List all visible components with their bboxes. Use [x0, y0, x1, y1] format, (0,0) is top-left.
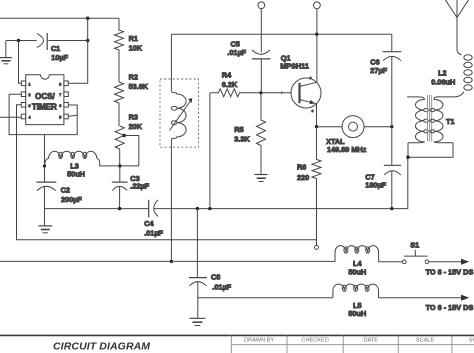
ground G3 — [255, 174, 268, 176]
ground G1 — [5, 41, 7, 58]
inductor L5 — [333, 284, 379, 298]
junction dot XTAL right on C6C7 line — [390, 125, 393, 128]
transformer T1 left winding — [407, 97, 424, 143]
capacitor C4 — [148, 200, 150, 218]
resistor R6 — [312, 127, 321, 246]
transformer T1 core — [428, 95, 432, 142]
wire L1 feed vertical — [170, 34, 172, 90]
wire pin1 — [19, 41, 22, 84]
svg-text:10µF: 10µF — [51, 53, 68, 62]
junction dot L3 left — [43, 164, 46, 167]
pin 2 stub — [21, 92, 25, 97]
pin 1 stub — [21, 81, 25, 86]
terminal circle T1a — [258, 2, 265, 9]
svg-text:R3: R3 — [129, 113, 138, 122]
inductor L4 — [335, 246, 379, 262]
ground G2 — [38, 225, 52, 227]
svg-text:TO 6 - 15V DS: TO 6 - 15V DS — [426, 303, 474, 312]
svg-text:CHECKED: CHECKED — [301, 337, 328, 343]
inductor L1 coil — [171, 90, 186, 140]
svg-text:1: 1 — [29, 82, 31, 86]
svg-text:SHEET: SHEET — [469, 337, 474, 343]
junction dot C3 on mid rail — [118, 207, 121, 210]
svg-text:R1: R1 — [129, 34, 138, 43]
inductor L1 variable dashed box — [160, 79, 199, 147]
wire L5 row — [198, 297, 333, 299]
svg-text:2: 2 — [29, 93, 31, 97]
resistor R3 — [115, 126, 124, 166]
ground G4 — [189, 317, 205, 319]
svg-text:.01µF: .01µF — [144, 228, 163, 237]
wire bottom rail y261.4 — [0, 260, 335, 262]
svg-text:4: 4 — [29, 116, 31, 120]
svg-text:C1: C1 — [51, 44, 60, 53]
wire L1 bottom to bottom rail — [170, 140, 172, 261]
svg-text:8: 8 — [59, 82, 61, 86]
wire pin8 vertical — [68, 18, 88, 83]
svg-text:R4: R4 — [222, 71, 232, 80]
svg-text:10K: 10K — [129, 44, 143, 53]
svg-text:DRAWN BY: DRAWN BY — [244, 337, 274, 343]
svg-text:e: e — [312, 109, 314, 113]
svg-text:3.3K: 3.3K — [234, 134, 250, 143]
switch S1 — [379, 261, 403, 263]
junction dot T1 box corner — [406, 156, 409, 159]
wire R3 tap loop — [120, 136, 139, 166]
crystal XTAL — [317, 126, 343, 128]
svg-text:6: 6 — [59, 104, 61, 108]
capacitor C2 — [36, 181, 56, 183]
wire main mid rail y208.6 left of C4 — [45, 208, 149, 210]
wire pin2 to pins 5/6 — [9, 94, 77, 134]
wire oscillator top rail — [171, 33, 391, 35]
svg-text:S1: S1 — [410, 241, 419, 250]
pin 5 stub — [64, 114, 68, 119]
inductor L1 arrow — [170, 102, 191, 131]
wire main mid rail y208.6 right of C4 — [154, 157, 408, 208]
svg-text:50uH: 50uH — [348, 268, 366, 277]
svg-text:.22µF: .22µF — [130, 182, 149, 191]
capacitor C5 — [252, 50, 270, 54]
capacitor C8 — [196, 209, 198, 278]
pin 8 stub — [64, 81, 68, 86]
wire C1 right to IC pin8 drop — [48, 40, 87, 42]
resistor R5 — [257, 93, 266, 175]
junction dot R3 bottom node — [118, 164, 121, 167]
svg-text:R6: R6 — [297, 163, 306, 172]
junction dot R4/R5/C5/base node — [259, 91, 262, 94]
pin 4 stub — [21, 114, 25, 119]
svg-text:TIMER: TIMER — [32, 102, 57, 111]
svg-text:5: 5 — [59, 116, 61, 120]
junction dot C1 right node — [86, 39, 89, 42]
wire C2/L3 branch from pin node — [44, 135, 46, 183]
capacitor C6 — [391, 34, 393, 52]
svg-text:20K: 20K — [129, 122, 143, 131]
svg-text:OCS/: OCS/ — [35, 92, 55, 101]
title block frame — [0, 334, 474, 336]
capacitor C7 — [384, 164, 401, 166]
junction dot L1 on bottom rail — [170, 260, 173, 263]
wire top-left supply rail — [0, 17, 119, 19]
svg-text:C2: C2 — [61, 186, 70, 195]
wire R4 left drop — [209, 93, 211, 209]
wire L2 bottom to T1 — [437, 92, 464, 97]
svg-text:MPSH11: MPSH11 — [280, 61, 309, 70]
junction dot C7 on mid rail — [390, 207, 393, 210]
svg-text:7: 7 — [59, 93, 61, 97]
svg-text:200µF: 200µF — [61, 195, 82, 204]
wire pin4 — [0, 116, 22, 118]
svg-text:220: 220 — [297, 173, 309, 182]
svg-text:.01µF: .01µF — [212, 283, 231, 292]
svg-text:CIRCUIT DIAGRAM: CIRCUIT DIAGRAM — [53, 341, 150, 353]
svg-text:180µF: 180µF — [365, 180, 386, 189]
wire Q1 collector vertical — [316, 9, 318, 83]
svg-text:6.2K: 6.2K — [222, 80, 238, 89]
svg-text:DATE: DATE — [363, 337, 378, 343]
transformer T1 bottom link box — [408, 143, 453, 158]
svg-text:L2: L2 — [438, 69, 447, 78]
svg-text:R5: R5 — [234, 125, 243, 134]
wire C5 vertical top — [260, 9, 262, 53]
wire arrow to supply row1 — [429, 261, 462, 263]
svg-text:T1: T1 — [446, 117, 455, 126]
resistor R2 — [115, 82, 124, 126]
capacitor C1 — [37, 34, 44, 48]
op-amp U1 OCS/TIMER IC body — [26, 75, 64, 125]
wire pin3 long run to S1 node — [17, 105, 317, 240]
capacitor C3 — [119, 166, 121, 182]
junction dot C1 left node — [17, 39, 20, 42]
wire pin5 link — [68, 115, 77, 116]
transistor Q1 — [261, 92, 298, 94]
svg-text:50uH: 50uH — [348, 309, 366, 318]
svg-text:3: 3 — [29, 104, 31, 108]
junction dot collector on top rail — [315, 33, 318, 36]
svg-text:53.6K: 53.6K — [129, 82, 149, 91]
terminal circle R6 bottom — [315, 245, 319, 249]
svg-text:C4: C4 — [144, 219, 154, 228]
svg-text:R2: R2 — [129, 73, 138, 82]
pin 3 stub — [21, 103, 25, 108]
resistor R4 — [210, 89, 261, 97]
junction dot emitter node — [315, 125, 318, 128]
junction dot R3 tap — [123, 134, 126, 137]
svg-text:0.06uH: 0.06uH — [431, 78, 455, 87]
junction dot rail/C1 branch — [86, 17, 89, 20]
wire C1 row — [6, 40, 37, 42]
resistor R1 — [115, 18, 124, 82]
svg-text:27µF: 27µF — [370, 66, 387, 75]
svg-text:.01µF: .01µF — [227, 48, 246, 57]
svg-text:SCALE: SCALE — [416, 337, 435, 343]
svg-text:TO 6 - 15V DS: TO 6 - 15V DS — [426, 267, 474, 276]
inductor L2 — [464, 55, 472, 60]
antenna — [446, 0, 469, 55]
svg-text:C8: C8 — [211, 272, 220, 281]
wire arrow to supply row2 — [379, 297, 463, 299]
svg-text:50uH: 50uH — [67, 170, 85, 179]
junction dot R4 on mid rail — [208, 207, 211, 210]
transformer T1 right winding — [434, 97, 453, 143]
junction dot C8 on mid rail — [196, 207, 199, 210]
pin 7 stub — [64, 92, 68, 97]
svg-text:149.89 MHz: 149.89 MHz — [327, 145, 367, 154]
svg-text:c: c — [310, 76, 312, 80]
pin 6 stub — [64, 103, 68, 108]
inductor L3 — [45, 151, 120, 166]
terminal circle T1b — [314, 2, 321, 9]
